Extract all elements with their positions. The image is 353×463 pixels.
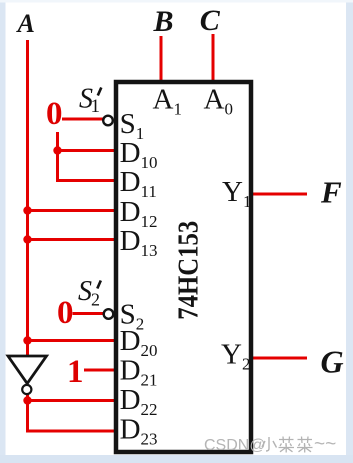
wire: constant 1 to D21 [84,369,118,372]
inverter G1 bubble [22,385,31,394]
wire: inverter output to D23 [28,394,119,431]
svg-text:F: F [320,175,342,210]
svg-text:C: C [200,4,221,37]
wire: to D10 [58,149,119,152]
junction node inverter out to D22 [23,396,31,404]
junction node A to D13 [23,235,31,243]
svg-text:0: 0 [57,295,74,331]
svg-text:74HC153: 74HC153 [172,221,204,320]
junction node A to D20 [23,336,31,344]
watermark glyph xiao [262,437,277,451]
wire: inverter output to D22 [26,399,118,402]
watermark glyph cai 2 [297,437,313,453]
watermark glyph cai 1 [279,437,295,453]
svg-text:S: S [78,276,92,307]
svg-text:A: A [16,9,35,38]
wire: C to pin A0 [212,34,215,82]
S1 active-low input bubble [103,116,113,126]
wire: constant 0 to S1 bubble [62,118,104,121]
wire: A to D20 [26,339,118,342]
svg-text:1: 1 [67,354,84,390]
wire: constant 0 to S2 bubble [73,312,105,315]
junction node A to D12 [23,206,31,214]
IC body 74HC153 [116,82,251,452]
wire: net A vertical line [26,40,29,356]
wire: Y2 to G [252,357,307,360]
svg-text:2: 2 [91,290,100,310]
svg-text:0: 0 [46,96,63,132]
wire: A to D12 [26,209,118,212]
top margin stripe [0,0,353,3]
svg-text:1: 1 [91,96,101,117]
wire: Y1 to F [252,193,307,196]
svg-text:~~: ~~ [314,434,336,455]
wire: B to pin A1 [160,36,163,82]
bottom margin stripe [0,455,353,463]
wire: constant 0 branch vertical to D10 D11 [58,132,119,181]
svg-text:B: B [153,5,174,38]
junction dot on D10 branch [53,146,61,154]
left margin stripe [0,0,6,463]
svg-text:G: G [321,344,344,380]
svg-text:CSDN@: CSDN@ [204,437,266,454]
S2 active-low input bubble [104,309,114,319]
wire: A to D13 [26,238,118,241]
inverter G1 triangle [8,356,47,384]
right margin stripe [346,0,353,463]
